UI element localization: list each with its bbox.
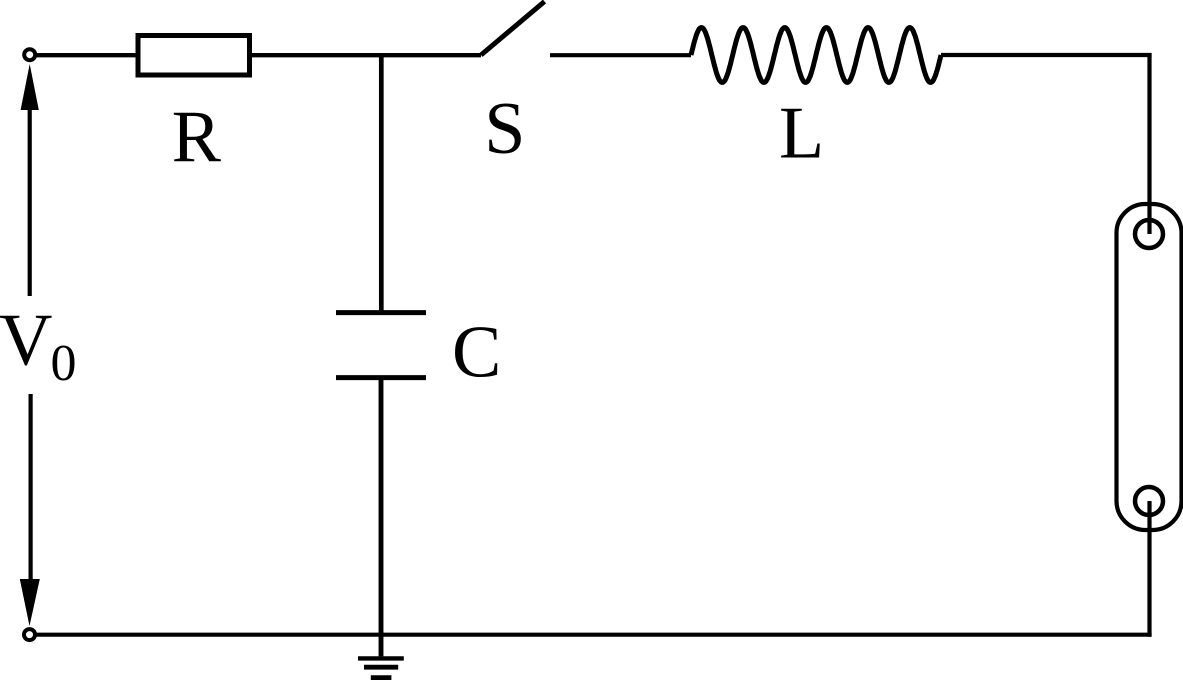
ground bar 3 (371, 675, 392, 680)
svg-text:C: C (452, 311, 501, 393)
lamp top electrode (1135, 220, 1163, 248)
resistor R (138, 36, 250, 76)
lamp bottom electrode (1135, 487, 1163, 515)
wire right side down (1147, 53, 1151, 234)
svg-text:S: S (484, 88, 525, 170)
switch S blade (481, 2, 545, 56)
capacitor top plate (336, 310, 426, 315)
wire lamp to bottom wire (1147, 501, 1151, 637)
wire capacitor to ground (379, 378, 384, 657)
terminal bottom-left (24, 629, 35, 640)
ground bar 2 (364, 665, 398, 670)
svg-text:L: L (779, 93, 824, 175)
svg-text:0: 0 (51, 335, 77, 392)
wire node to capacitor (379, 55, 384, 313)
V0 arrow down line (29, 394, 33, 583)
V0 arrow down head (20, 579, 40, 626)
wire switch to inductor (550, 53, 691, 57)
terminal top-left (24, 49, 35, 60)
wire inductor to top-right corner (941, 53, 1152, 57)
bottom wire (35, 633, 1152, 637)
inductor L coil (691, 28, 941, 83)
V0 arrow up head (21, 64, 39, 110)
svg-text:V: V (0, 299, 52, 381)
lamp body (1117, 204, 1182, 530)
V0 arrow up line (28, 103, 32, 296)
svg-text:R: R (172, 97, 222, 179)
wire top left (35, 53, 481, 57)
capacitor bottom plate (336, 375, 426, 380)
ground bar 1 (358, 656, 404, 660)
